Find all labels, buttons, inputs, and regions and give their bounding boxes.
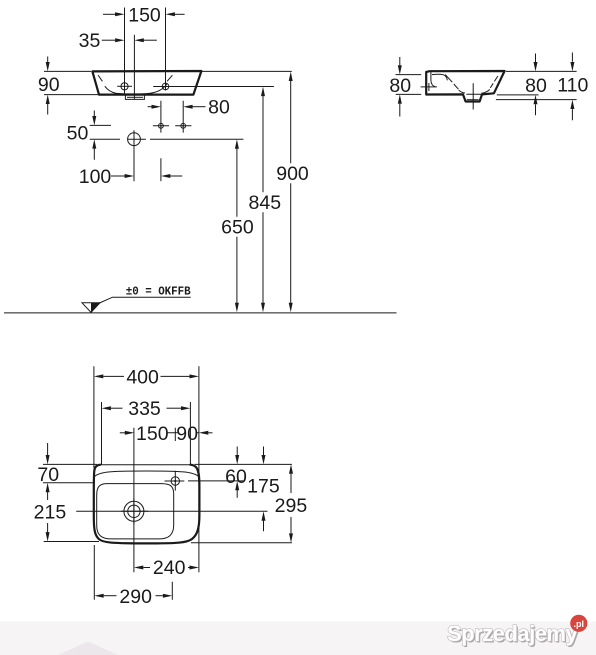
plan view outer body	[94, 465, 200, 544]
dimension 50	[90, 125, 120, 139]
extension line plan top right	[195, 463, 292, 465]
plan view tap hole cross	[165, 471, 185, 491]
side view drain centerline	[466, 83, 488, 109]
mounting hole right cross	[175, 101, 191, 133]
plan view back edge	[100, 464, 190, 466]
svg-text:215: 215	[34, 502, 67, 524]
dimension 90 left	[44, 71, 99, 94]
svg-text:50: 50	[67, 123, 89, 145]
svg-text:35: 35	[79, 30, 101, 52]
side view rim arc	[432, 74, 447, 80]
extension line plan bottom right	[191, 542, 292, 544]
plan view tap hole	[171, 477, 179, 485]
svg-text:90: 90	[176, 423, 198, 445]
svg-text:650: 650	[221, 217, 254, 239]
svg-text:150: 150	[128, 5, 161, 27]
dimension 90 plan	[199, 431, 208, 435]
side view back channel	[431, 72, 435, 87]
svg-text:335: 335	[128, 398, 161, 420]
side view mounting cross	[421, 83, 437, 91]
dimension line 845	[262, 96, 264, 304]
dimension 70	[43, 464, 97, 482]
svg-text:295: 295	[275, 495, 308, 517]
side view outline	[426, 71, 504, 102]
dimension 290	[94, 545, 172, 600]
front view left faucet hole h-tick	[117, 85, 132, 87]
dimension 150 top	[103, 13, 116, 15]
svg-text:80: 80	[208, 97, 230, 119]
plan view vertical centerline	[133, 428, 135, 573]
dimension 240	[134, 566, 143, 570]
dimension line 650	[236, 148, 238, 303]
dimension 80 side left	[396, 75, 422, 95]
dimension 175	[263, 447, 265, 456]
extension line drain center vertical	[133, 35, 135, 100]
mounting hole left cross	[153, 101, 169, 133]
front view left faucet hole	[121, 83, 128, 90]
front view drain tab	[125, 95, 144, 100]
extension line 650	[150, 138, 243, 140]
side view bowl bottom right curve	[482, 90, 490, 94]
svg-text:90: 90	[38, 74, 60, 96]
dimension 100	[111, 175, 126, 177]
plan view drain inner ring	[128, 505, 140, 517]
mounting hole left	[159, 123, 164, 128]
plan view inner basin	[97, 484, 174, 539]
side view top extension line	[506, 70, 577, 72]
extension line right hole vertical	[165, 8, 167, 91]
plan view horizontal centerline	[76, 510, 267, 512]
logo red circle pl	[570, 615, 587, 632]
svg-text:Sprzedajemy: Sprzedajemy	[447, 621, 578, 646]
svg-text:80: 80	[525, 75, 547, 97]
drain trap circle cross	[127, 130, 145, 149]
dimension line 900	[290, 81, 292, 304]
plan view deck top edge	[95, 471, 199, 477]
dimension 80 mounting holes	[148, 106, 153, 108]
svg-text:60: 60	[225, 466, 247, 488]
svg-text:80: 80	[389, 75, 411, 97]
svg-text:±0 = OKFFB: ±0 = OKFFB	[126, 284, 191, 298]
dimension 400	[93, 366, 95, 468]
mounting hole right	[181, 123, 186, 128]
dimension 110 side	[496, 99, 577, 101]
dimension 80 side right	[497, 94, 539, 96]
extension line left hole vertical	[124, 8, 126, 95]
front view curve through right hole	[163, 84, 167, 88]
side view bowl bottom left curve	[459, 90, 465, 93]
dimension 295	[289, 464, 293, 473]
side view interior dashes left	[445, 75, 458, 90]
level symbol triangle	[82, 303, 100, 313]
extension line 60 horizontal	[188, 480, 243, 482]
drain trap circle	[128, 133, 141, 146]
svg-text:150: 150	[136, 423, 169, 445]
svg-text:.pl: .pl	[574, 619, 585, 629]
svg-text:845: 845	[249, 192, 282, 214]
front view interior dash top-right	[167, 75, 172, 81]
svg-text:290: 290	[119, 586, 152, 608]
svg-text:400: 400	[126, 367, 159, 389]
svg-text:100: 100	[79, 166, 112, 188]
level symbol leader	[100, 297, 191, 303]
front view interior dash top-left	[98, 75, 102, 81]
dimension 215	[46, 483, 50, 492]
front view drain tab inner line	[127, 96, 143, 98]
dimension 335	[102, 402, 191, 465]
dimension 35	[102, 39, 115, 41]
plan view drain outer circle	[124, 501, 144, 521]
extension line 845 through right hole	[153, 86, 274, 88]
plan view drain cross ticks	[121, 498, 148, 524]
dimension 150 plan	[120, 432, 125, 434]
dimension 60	[236, 447, 238, 456]
front view right faucet hole	[162, 83, 169, 90]
watermark band	[0, 622, 596, 655]
side view interior dashes right	[490, 76, 498, 88]
watermark triangle	[58, 642, 118, 655]
svg-text:900: 900	[276, 163, 309, 185]
svg-text:70: 70	[37, 464, 59, 486]
ground line	[4, 312, 397, 314]
extension line below trap circle	[133, 149, 135, 181]
svg-text:240: 240	[153, 557, 186, 579]
front view washbasin outline	[92, 71, 201, 95]
extension line 900	[201, 70, 291, 72]
side view drain inner line	[467, 99, 479, 101]
svg-text:110: 110	[557, 74, 588, 96]
front view interior bowl curve	[105, 86, 163, 94]
